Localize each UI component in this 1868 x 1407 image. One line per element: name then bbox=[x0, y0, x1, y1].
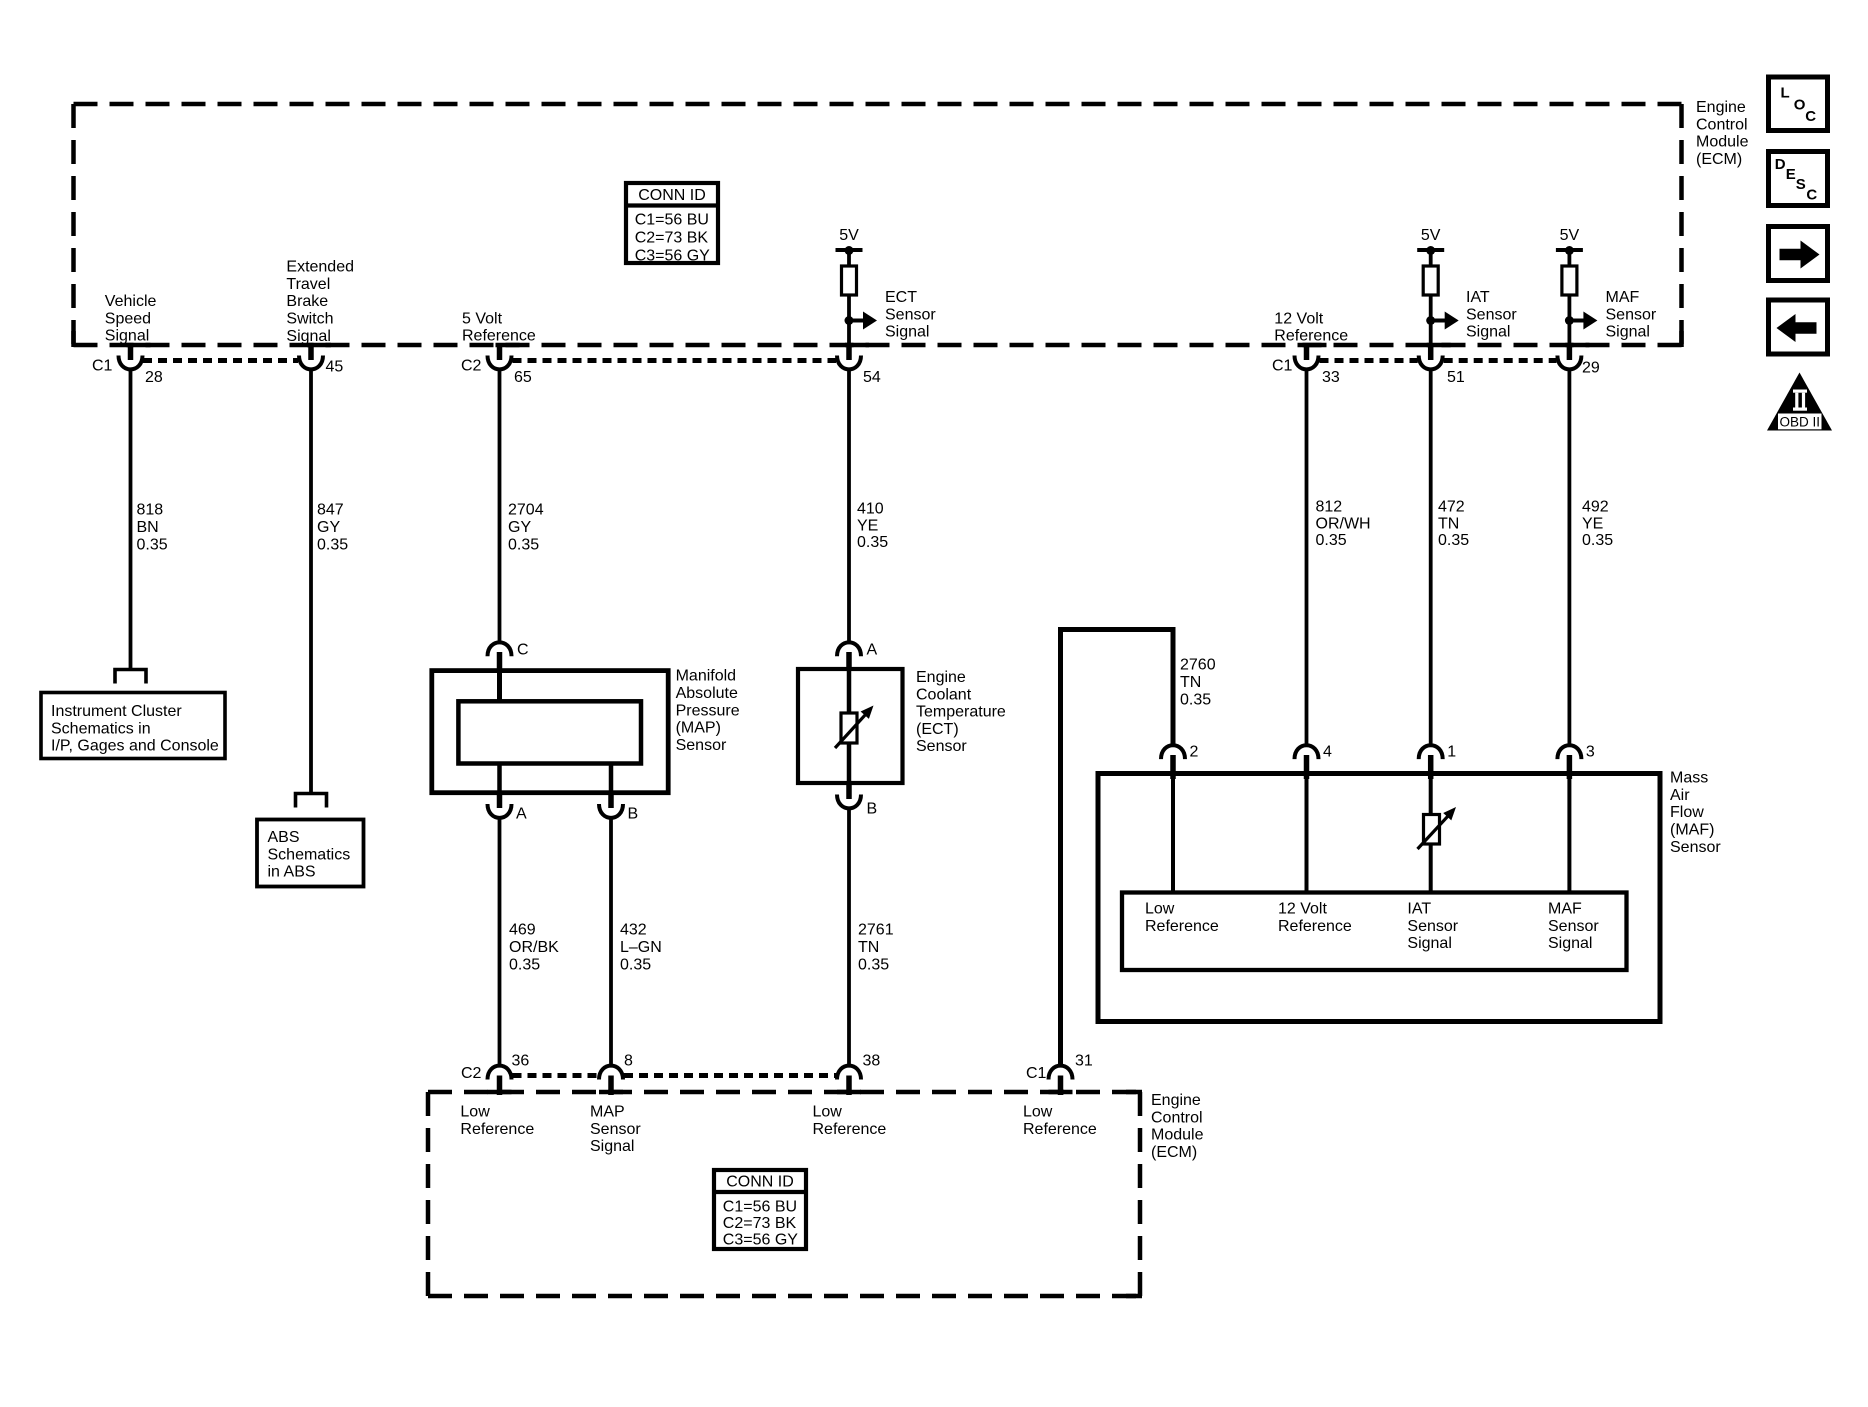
svg-text:C2=73 BK: C2=73 BK bbox=[635, 230, 709, 247]
junction dot and MAF sensor signal arrow bbox=[1565, 316, 1574, 325]
corner dashes of top ECM box bbox=[71, 331, 76, 347]
svg-text:ECT: ECT bbox=[885, 289, 917, 306]
svg-text:Engine: Engine bbox=[916, 669, 966, 686]
MAF internal wires bbox=[1171, 777, 1175, 894]
ECM connector pin 65 bbox=[496, 343, 520, 348]
svg-text:C3=56 GY: C3=56 GY bbox=[635, 248, 710, 265]
MAP sensor outer box bbox=[432, 671, 668, 793]
CONN ID table (bottom ECM) bbox=[714, 1170, 806, 1249]
ECM connector pin 33 bbox=[1303, 343, 1327, 348]
MAF sensor connector pin 3 bbox=[1557, 745, 1581, 759]
ECT sensor connector A bbox=[837, 642, 861, 656]
svg-text:5V: 5V bbox=[839, 227, 859, 244]
svg-text:45: 45 bbox=[326, 359, 344, 376]
svg-text:847: 847 bbox=[317, 502, 344, 519]
ECM connector pin 54 bbox=[845, 343, 869, 348]
svg-text:IAT: IAT bbox=[1407, 901, 1431, 918]
svg-text:C2=73 BK: C2=73 BK bbox=[723, 1215, 797, 1232]
svg-text:Signal: Signal bbox=[1606, 324, 1650, 341]
MAP sensor connector C bbox=[488, 642, 512, 656]
svg-text:A: A bbox=[867, 642, 878, 659]
svg-text:Engine: Engine bbox=[1151, 1092, 1201, 1109]
svg-text:12 Volt: 12 Volt bbox=[1278, 901, 1327, 918]
svg-text:Sensor: Sensor bbox=[916, 738, 967, 755]
box: Instrument Cluster Schematics in I/P, Gages and Console bbox=[41, 693, 225, 759]
svg-text:Reference: Reference bbox=[1023, 1121, 1097, 1138]
ECT sensor box bbox=[798, 669, 903, 783]
ECM connector pin 36 (bottom) bbox=[488, 1090, 512, 1095]
svg-text:4: 4 bbox=[1323, 744, 1332, 761]
svg-text:OR/WH: OR/WH bbox=[1316, 515, 1371, 532]
svg-text:Sensor: Sensor bbox=[676, 737, 727, 754]
svg-text:818: 818 bbox=[137, 502, 164, 519]
svg-text:Coolant: Coolant bbox=[916, 686, 972, 703]
svg-text:(ECT): (ECT) bbox=[916, 721, 959, 738]
icon: forward arrow box bbox=[1769, 227, 1828, 281]
svg-text:Sensor: Sensor bbox=[590, 1121, 641, 1138]
svg-text:C1: C1 bbox=[92, 358, 113, 375]
wire 2761 TN (ECT low reference) bbox=[847, 808, 851, 1066]
svg-text:54: 54 bbox=[863, 369, 881, 386]
svg-text:Signal: Signal bbox=[590, 1138, 634, 1155]
svg-text:Low: Low bbox=[1023, 1104, 1053, 1121]
box: ABS Schematics in ABS bbox=[257, 820, 364, 887]
svg-text:IAT: IAT bbox=[1466, 289, 1490, 306]
svg-text:Signal: Signal bbox=[1407, 935, 1451, 952]
svg-text:B: B bbox=[628, 806, 639, 823]
svg-text:410: 410 bbox=[857, 501, 884, 518]
svg-text:in ABS: in ABS bbox=[268, 864, 316, 881]
MAF sensor connector pin 1 bbox=[1419, 745, 1443, 759]
svg-text:C1=56 BU: C1=56 BU bbox=[723, 1198, 797, 1215]
ECM connector pin 31 (bottom) bbox=[1049, 1090, 1073, 1095]
svg-text:2761: 2761 bbox=[858, 922, 894, 939]
svg-text:(MAP): (MAP) bbox=[676, 720, 721, 737]
MAP sensor inner box bbox=[458, 701, 641, 763]
MAP sensor connector B bbox=[608, 791, 614, 808]
svg-text:Speed: Speed bbox=[105, 310, 151, 327]
dotted connector bus line C1 (right section, pins 33-51-29) bbox=[1320, 358, 1557, 363]
svg-text:29: 29 bbox=[1582, 360, 1600, 377]
svg-text:A: A bbox=[516, 806, 527, 823]
icon: LOC hotlink box bbox=[1769, 77, 1828, 131]
svg-text:Control: Control bbox=[1696, 116, 1748, 133]
svg-text:0.35: 0.35 bbox=[858, 957, 889, 974]
svg-text:28: 28 bbox=[145, 369, 163, 386]
dotted connector bus line (bottom, pins 36-8-38) bbox=[513, 1073, 837, 1078]
svg-text:3: 3 bbox=[1586, 744, 1595, 761]
svg-text:Low: Low bbox=[813, 1104, 843, 1121]
svg-text:OBD II: OBD II bbox=[1779, 414, 1820, 429]
MAF IAT thermistor (variable resistor) bbox=[1424, 815, 1440, 845]
MAF sensor inner terminal box bbox=[1122, 893, 1627, 971]
svg-text:Signal: Signal bbox=[885, 324, 929, 341]
svg-text:2760: 2760 bbox=[1180, 657, 1216, 674]
svg-text:Schematics in: Schematics in bbox=[51, 720, 151, 737]
svg-text:Low: Low bbox=[460, 1104, 490, 1121]
svg-text:C2: C2 bbox=[461, 358, 482, 375]
svg-text:C: C bbox=[1806, 186, 1817, 203]
ECM connector pin 29 bbox=[1565, 343, 1589, 348]
svg-text:8: 8 bbox=[624, 1053, 633, 1070]
svg-text:Instrument Cluster: Instrument Cluster bbox=[51, 703, 182, 720]
svg-text:C2: C2 bbox=[461, 1065, 482, 1082]
svg-text:TN: TN bbox=[858, 939, 879, 956]
svg-text:Air: Air bbox=[1670, 787, 1690, 804]
svg-text:31: 31 bbox=[1075, 1053, 1093, 1070]
MAF sensor connector pin 2 bbox=[1161, 745, 1185, 759]
svg-text:C: C bbox=[1805, 108, 1816, 125]
svg-text:Signal: Signal bbox=[1548, 935, 1592, 952]
MAP sensor connector A bbox=[497, 791, 503, 808]
svg-text:B: B bbox=[867, 801, 878, 818]
svg-text:2: 2 bbox=[1190, 744, 1199, 761]
ECT thermistor (variable resistor) bbox=[841, 713, 857, 743]
svg-text:Extended: Extended bbox=[286, 259, 354, 276]
ECT internal wire bbox=[847, 669, 852, 783]
svg-text:ABS: ABS bbox=[268, 829, 300, 846]
svg-text:Absolute: Absolute bbox=[676, 685, 738, 702]
wire 410 YE (ECT sensor signal) bbox=[847, 369, 851, 642]
wire 2704 GY (5 volt reference to MAP C) bbox=[498, 369, 502, 642]
svg-text:C1: C1 bbox=[1026, 1065, 1047, 1082]
svg-text:Sensor: Sensor bbox=[1670, 839, 1721, 856]
svg-text:38: 38 bbox=[863, 1053, 881, 1070]
svg-text:CONN ID: CONN ID bbox=[726, 1174, 794, 1191]
svg-text:0.35: 0.35 bbox=[137, 537, 168, 554]
Engine Control Module (ECM) dashed outline box (top) bbox=[74, 104, 1682, 345]
svg-text:0.35: 0.35 bbox=[508, 537, 539, 554]
svg-text:L–GN: L–GN bbox=[620, 939, 662, 956]
svg-text:5V: 5V bbox=[1560, 227, 1580, 244]
svg-text:Reference: Reference bbox=[1145, 918, 1219, 935]
svg-text:E: E bbox=[1786, 166, 1796, 183]
svg-text:(MAF): (MAF) bbox=[1670, 822, 1714, 839]
svg-text:Sensor: Sensor bbox=[1548, 918, 1599, 935]
CONN ID table (top ECM) bbox=[626, 183, 718, 263]
ECM connector pin 28 bbox=[127, 343, 151, 348]
svg-text:(ECM): (ECM) bbox=[1696, 151, 1742, 168]
svg-text:C3=56 GY: C3=56 GY bbox=[723, 1231, 798, 1248]
svg-text:Travel: Travel bbox=[286, 276, 330, 293]
ECM connector pin 8 (bottom) bbox=[599, 1090, 623, 1095]
svg-text:5 Volt: 5 Volt bbox=[462, 310, 503, 327]
svg-text:0.35: 0.35 bbox=[1316, 532, 1347, 549]
svg-text:0.35: 0.35 bbox=[317, 537, 348, 554]
svg-text:MAF: MAF bbox=[1548, 901, 1582, 918]
svg-text:(ECM): (ECM) bbox=[1151, 1144, 1197, 1161]
wire 432 L-GN (MAP sensor signal) bbox=[609, 818, 613, 1066]
wire 469 OR/BK (MAP low reference) bbox=[498, 818, 502, 1066]
wire 818 BN (vehicle speed signal) bbox=[129, 369, 133, 668]
svg-text:Signal: Signal bbox=[1466, 324, 1510, 341]
svg-text:0.35: 0.35 bbox=[857, 534, 888, 551]
svg-text:C1=56 BU: C1=56 BU bbox=[635, 212, 709, 229]
off-page pointer to ABS schematics bbox=[296, 794, 327, 808]
svg-text:Reference: Reference bbox=[462, 328, 536, 345]
svg-text:Module: Module bbox=[1151, 1127, 1204, 1144]
svg-text:I/P, Gages and Console: I/P, Gages and Console bbox=[51, 738, 219, 755]
svg-text:472: 472 bbox=[1438, 499, 1465, 516]
svg-text:Sensor: Sensor bbox=[1606, 306, 1657, 323]
off-page pointer to instrument cluster bbox=[115, 670, 146, 684]
Engine Control Module (ECM) dashed outline box (bottom) bbox=[428, 1092, 1140, 1296]
svg-text:Pressure: Pressure bbox=[676, 702, 740, 719]
corner dashes of bottom ECM box bbox=[1126, 1090, 1142, 1095]
ECT sensor connector B bbox=[846, 781, 852, 799]
svg-text:Manifold: Manifold bbox=[676, 668, 736, 685]
wire 492 YE (MAF sensor signal to MAF pin 3) bbox=[1568, 369, 1572, 745]
svg-text:0.35: 0.35 bbox=[1180, 692, 1211, 709]
junction dot and IAT sensor signal arrow bbox=[1426, 316, 1435, 325]
icon: back arrow box bbox=[1769, 300, 1828, 354]
svg-text:Vehicle: Vehicle bbox=[105, 293, 157, 310]
svg-text:S: S bbox=[1796, 176, 1806, 193]
svg-text:Low: Low bbox=[1145, 901, 1175, 918]
svg-text:Reference: Reference bbox=[813, 1121, 887, 1138]
MAF sensor connector pin 4 bbox=[1295, 745, 1319, 759]
svg-text:C: C bbox=[517, 642, 529, 659]
svg-text:Temperature: Temperature bbox=[916, 704, 1006, 721]
svg-text:CONN ID: CONN ID bbox=[638, 187, 706, 204]
svg-text:Signal: Signal bbox=[105, 328, 149, 345]
wire 847 GY (brake switch signal) bbox=[309, 369, 313, 792]
svg-text:65: 65 bbox=[514, 369, 532, 386]
svg-text:OR/BK: OR/BK bbox=[509, 939, 559, 956]
svg-text:Flow: Flow bbox=[1670, 804, 1704, 821]
svg-text:GY: GY bbox=[508, 519, 531, 536]
svg-text:812: 812 bbox=[1316, 499, 1343, 516]
svg-text:YE: YE bbox=[1582, 515, 1603, 532]
svg-text:0.35: 0.35 bbox=[509, 957, 540, 974]
svg-text:Sensor: Sensor bbox=[1466, 306, 1517, 323]
wire 2760 TN low reference link (ECM pin 31 up-over to MAF pin 2) bbox=[1061, 630, 1174, 1067]
svg-text:Schematics: Schematics bbox=[268, 846, 351, 863]
ECM connector pin 38 (bottom) bbox=[837, 1090, 861, 1095]
svg-text:432: 432 bbox=[620, 922, 647, 939]
svg-text:36: 36 bbox=[512, 1053, 530, 1070]
ECM connector pin 51 bbox=[1427, 343, 1451, 348]
wire 812 OR/WH (12 volt reference to MAF pin 4) bbox=[1305, 369, 1309, 745]
svg-text:51: 51 bbox=[1447, 369, 1465, 386]
svg-text:Sensor: Sensor bbox=[885, 306, 936, 323]
svg-text:Switch: Switch bbox=[286, 311, 333, 328]
svg-text:TN: TN bbox=[1180, 674, 1201, 691]
svg-text:33: 33 bbox=[1322, 369, 1340, 386]
svg-text:Engine: Engine bbox=[1696, 99, 1746, 116]
svg-text:492: 492 bbox=[1582, 499, 1609, 516]
svg-text:D: D bbox=[1775, 156, 1786, 173]
svg-text:O: O bbox=[1794, 96, 1806, 113]
svg-text:MAP: MAP bbox=[590, 1104, 625, 1121]
svg-text:Reference: Reference bbox=[1278, 918, 1352, 935]
wire 472 TN (IAT sensor signal to MAF pin 1) bbox=[1429, 369, 1433, 745]
svg-text:Reference: Reference bbox=[1274, 328, 1348, 345]
svg-text:Module: Module bbox=[1696, 134, 1749, 151]
svg-text:1: 1 bbox=[1447, 744, 1456, 761]
ECM connector pin 45 bbox=[307, 343, 331, 348]
svg-text:YE: YE bbox=[857, 517, 878, 534]
icon: OBD II triangle bbox=[1767, 373, 1832, 431]
svg-text:MAF: MAF bbox=[1606, 289, 1640, 306]
svg-text:0.35: 0.35 bbox=[620, 957, 651, 974]
svg-text:Mass: Mass bbox=[1670, 770, 1708, 787]
dotted connector bus line C1/C2 (left section, pins 28-45-65-54) bbox=[143, 358, 836, 363]
svg-text:TN: TN bbox=[1438, 515, 1459, 532]
svg-text:0.35: 0.35 bbox=[1438, 532, 1469, 549]
icon: DESC hotlink box bbox=[1769, 152, 1828, 206]
svg-text:2704: 2704 bbox=[508, 502, 544, 519]
svg-text:GY: GY bbox=[317, 519, 340, 536]
svg-text:5V: 5V bbox=[1421, 227, 1441, 244]
svg-text:Reference: Reference bbox=[460, 1121, 534, 1138]
MAF sensor outer box bbox=[1098, 774, 1660, 1022]
svg-text:C1: C1 bbox=[1272, 358, 1293, 375]
svg-text:BN: BN bbox=[137, 519, 159, 536]
svg-text:Brake: Brake bbox=[286, 293, 328, 310]
junction dot and ECT sensor signal arrow bbox=[845, 316, 854, 325]
svg-text:Sensor: Sensor bbox=[1407, 918, 1458, 935]
svg-text:469: 469 bbox=[509, 922, 536, 939]
MAP sensor internal wires bbox=[497, 670, 502, 701]
svg-text:Signal: Signal bbox=[286, 328, 330, 345]
svg-text:12 Volt: 12 Volt bbox=[1274, 310, 1323, 327]
svg-text:Control: Control bbox=[1151, 1109, 1203, 1126]
svg-text:L: L bbox=[1781, 85, 1790, 102]
svg-text:0.35: 0.35 bbox=[1582, 532, 1613, 549]
